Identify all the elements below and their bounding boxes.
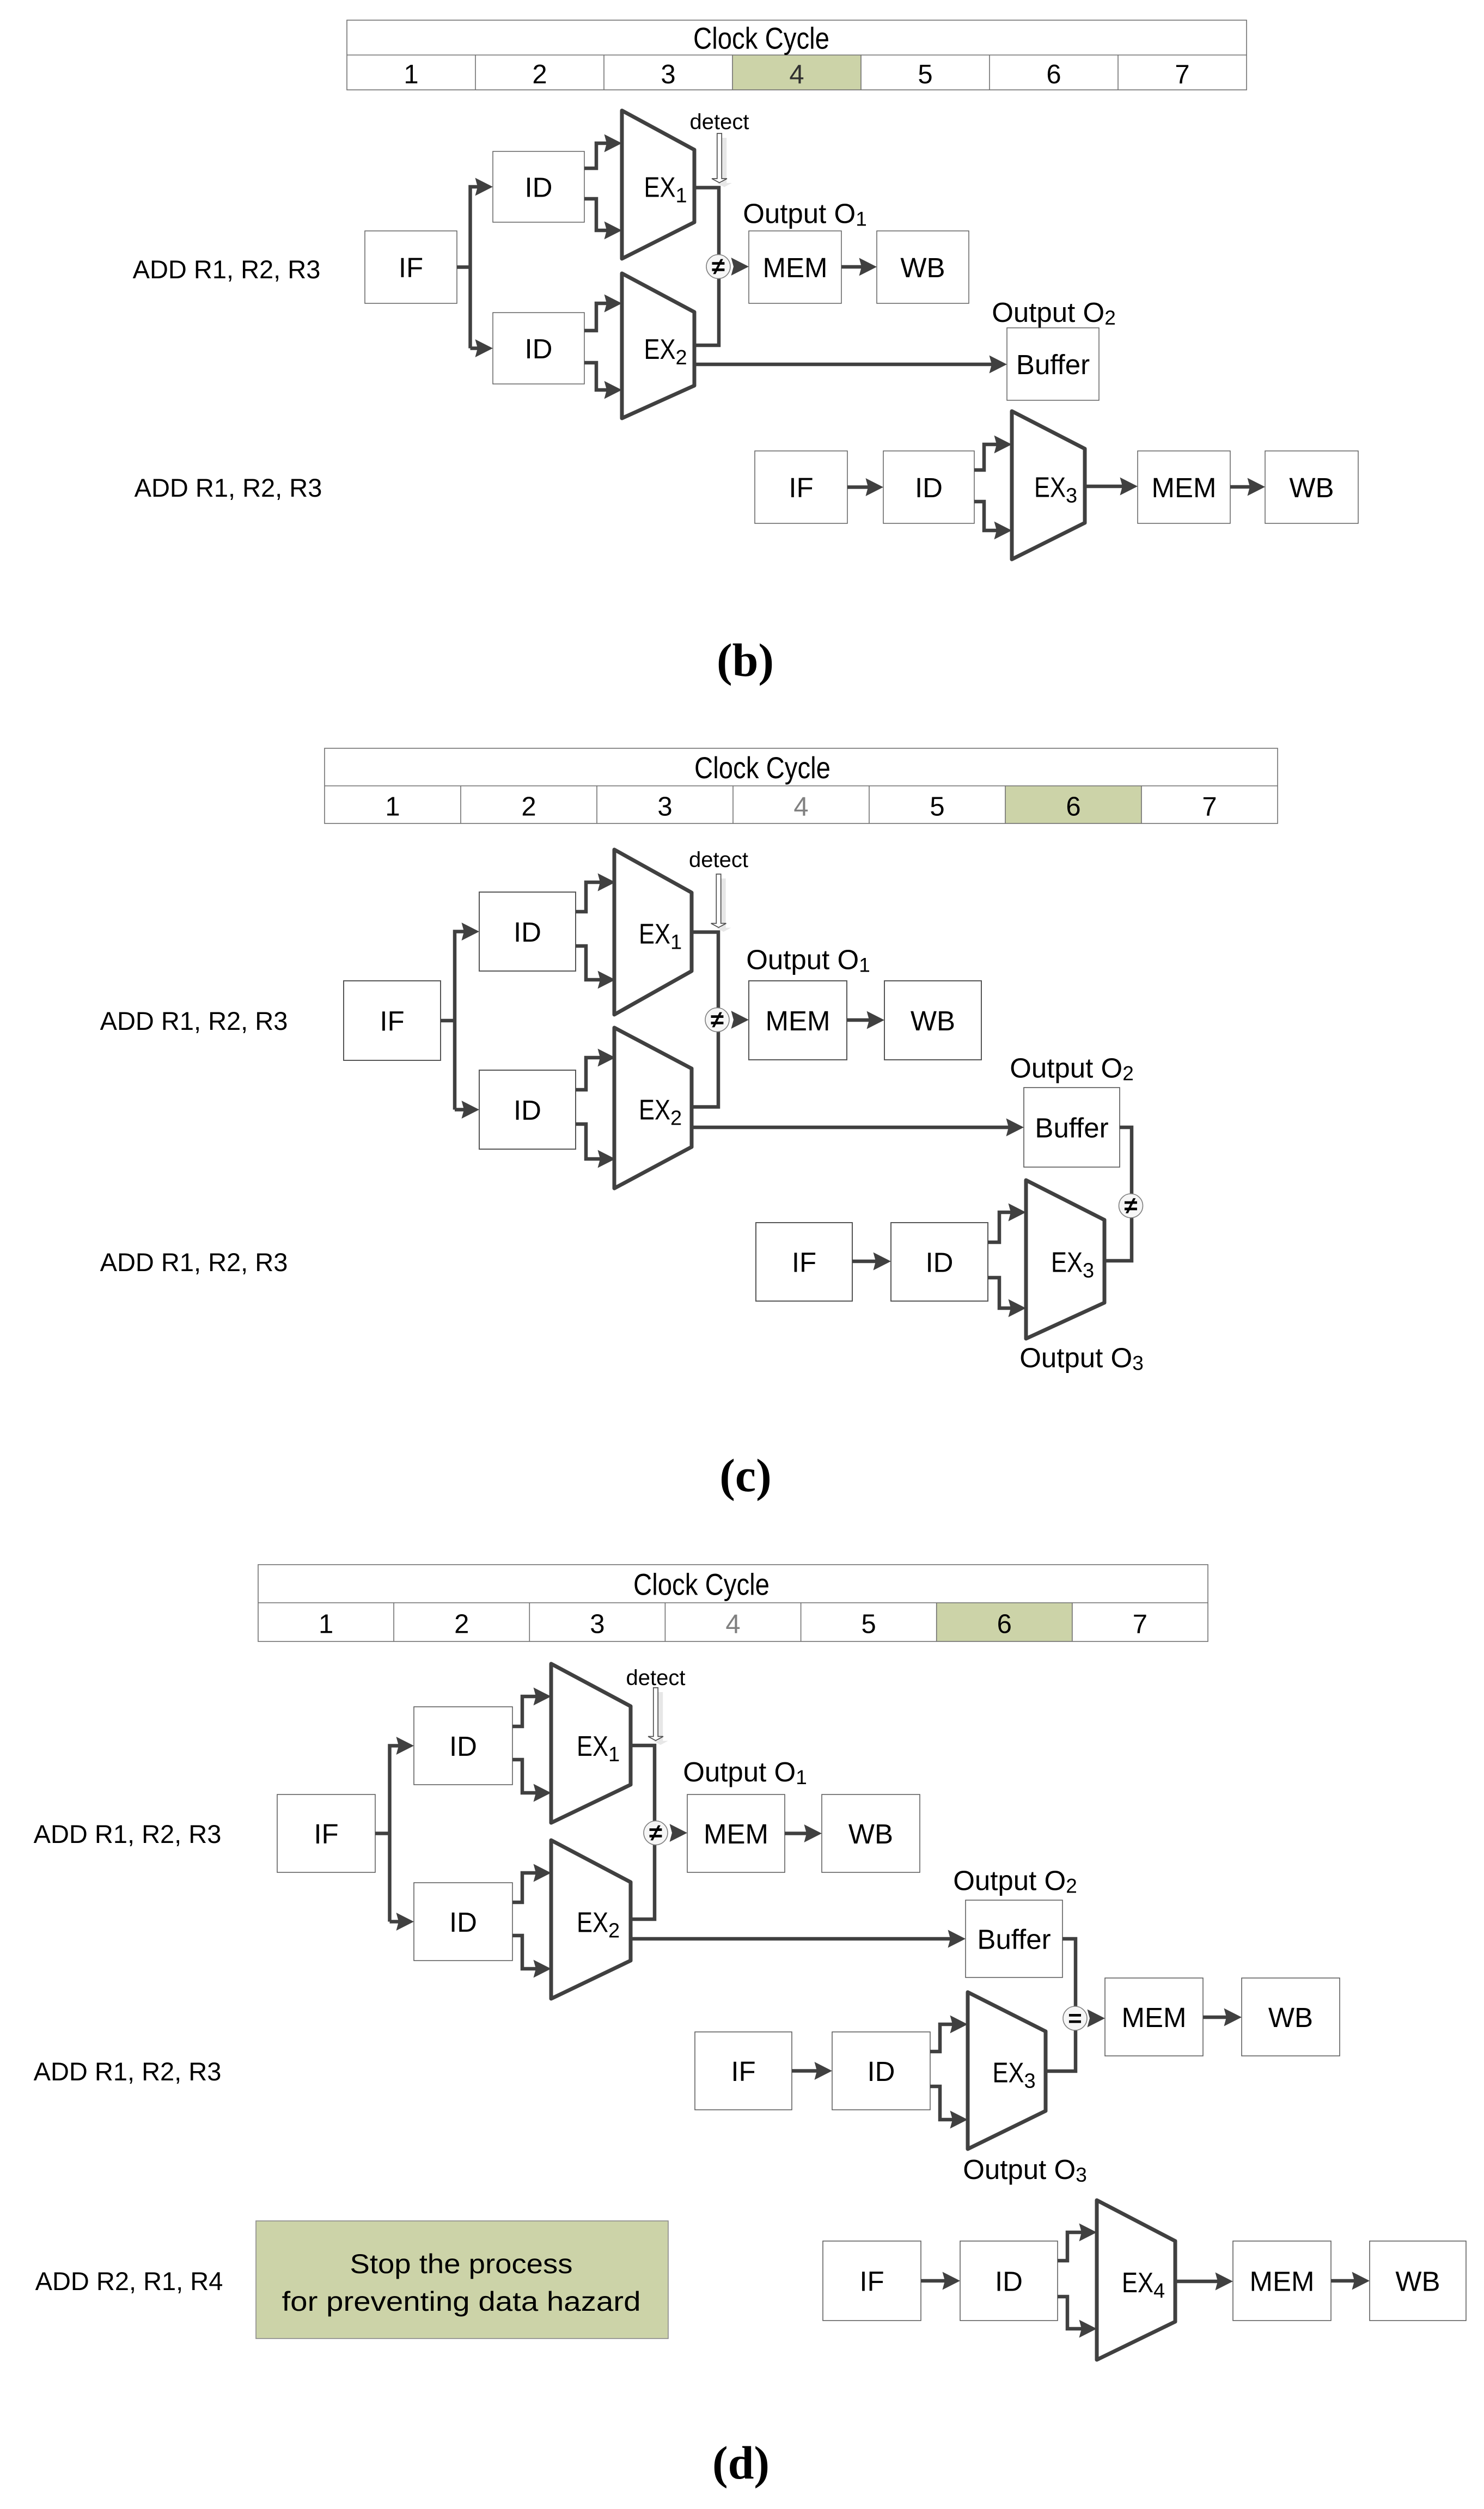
stage box ID upper (d row 1) [414, 1707, 512, 1785]
svg-text:IF: IF [399, 252, 423, 283]
svg-text:Clock Cycle: Clock Cycle [694, 750, 830, 785]
svg-text:Output O3: Output O3 [1019, 1342, 1144, 1375]
svg-text:1: 1 [404, 60, 418, 89]
wire ID-upper to EX1 (d) upper stub [512, 1688, 551, 1727]
wire ID-upper to EX1 (c) upper stub [576, 874, 615, 912]
wire EX2 upper output up to comparator (d) [631, 1833, 655, 1919]
stage box WB (b row 2) [1265, 451, 1358, 523]
wire EX1 output down to comparator (d) [631, 1745, 655, 1833]
svg-text:ADD R1, R2, R3: ADD R1, R2, R3 [34, 1820, 222, 1848]
arrow IF to ID (b row 2) [847, 478, 883, 496]
svg-text:2: 2 [521, 792, 536, 821]
svg-text:ID: ID [514, 917, 541, 948]
wire IF to trunk (d) [375, 1832, 390, 1835]
wire trunk to upper ID (c) [455, 923, 479, 1110]
svg-text:(d): (d) [712, 2437, 770, 2489]
stage box ID (d row 3) [960, 2241, 1058, 2321]
svg-text:ADD R1, R2, R3: ADD R1, R2, R3 [133, 255, 321, 284]
arrow MEM to WB (d row 3) [1331, 2272, 1370, 2290]
stage box ID lower (b row 1) [493, 313, 584, 384]
svg-text:Output O1: Output O1 [743, 198, 867, 230]
svg-text:EX: EX [993, 2058, 1024, 2089]
svg-text:MEM: MEM [1250, 2266, 1315, 2297]
wire ID to EX3 (b) upper stub [974, 436, 1012, 471]
wire ID-lower to EX2 (d) lower stub [512, 1936, 551, 1978]
clock-cycle table (d), cycle 6 highlighted [258, 1565, 1208, 1641]
svg-text:WB: WB [1395, 2266, 1440, 2297]
svg-text:ID: ID [926, 1247, 954, 1278]
stage box ID (b row 2) [883, 451, 974, 523]
svg-text:≠: ≠ [711, 1006, 724, 1033]
svg-text:EX: EX [577, 1731, 608, 1762]
wire ID-upper to EX1 (b) upper stub [584, 135, 622, 169]
stage box WB (b row 1) [877, 231, 969, 303]
svg-text:EX: EX [639, 918, 670, 950]
svg-text:1: 1 [676, 184, 687, 207]
buffer box (b) [1007, 328, 1099, 400]
svg-text:IF: IF [731, 2056, 755, 2087]
detect arrow (c) [711, 874, 731, 932]
wire ID to EX3 (d) lower stub [930, 2086, 968, 2129]
svg-text:4: 4 [725, 1609, 740, 1639]
arrow comparator to MEM (d row 2) [1088, 2010, 1106, 2028]
svg-text:7: 7 [1133, 1609, 1147, 1639]
wire ID-upper to EX1 (b) lower stub [584, 199, 622, 240]
svg-text:6: 6 [1066, 792, 1080, 821]
wire IF to trunk (c) [441, 1019, 455, 1023]
svg-text:(c): (c) [719, 1449, 771, 1501]
svg-text:Output O1: Output O1 [746, 944, 870, 976]
svg-text:≠: ≠ [1124, 1193, 1137, 1219]
detect arrow (b) [712, 133, 732, 187]
svg-text:4: 4 [793, 792, 808, 821]
svg-text:detect: detect [689, 848, 748, 872]
svg-text:4: 4 [1153, 2280, 1165, 2303]
execute unit EX1 (d) [551, 1664, 631, 1823]
stage box MEM (b row 1) [749, 231, 841, 303]
svg-text:1: 1 [319, 1609, 333, 1639]
svg-text:Clock Cycle: Clock Cycle [693, 21, 829, 55]
svg-text:(b): (b) [717, 634, 774, 686]
execute unit EX3 (c) [1026, 1180, 1104, 1339]
wire ID to EX3 (d) upper stub [930, 2016, 968, 2052]
svg-text:EX: EX [577, 1907, 608, 1938]
svg-text:IF: IF [314, 1818, 338, 1849]
stage box IF (d row 2) [695, 2032, 792, 2110]
svg-text:3: 3 [661, 60, 675, 89]
svg-text:Stop the process: Stop the process [350, 2249, 573, 2279]
arrow IF to ID (d row 2) [792, 2062, 832, 2080]
stage box WB (d row 2) [1242, 1978, 1340, 2056]
wire IF to trunk (b) [457, 265, 471, 269]
svg-text:WB: WB [911, 1005, 955, 1036]
arrow comparator to MEM (d) [670, 1824, 688, 1842]
svg-text:7: 7 [1175, 60, 1189, 89]
stop-the-process box (d) [256, 2221, 668, 2339]
wire ID-upper to EX1 (c) lower stub [576, 946, 615, 989]
svg-text:IF: IF [859, 2266, 884, 2297]
svg-text:3: 3 [1024, 2070, 1036, 2093]
svg-text:Buffer: Buffer [1035, 1112, 1108, 1143]
svg-text:ADD R1, R2, R3: ADD R1, R2, R3 [100, 1248, 288, 1277]
arrow comparator to MEM (c) [731, 1011, 749, 1029]
wire ID-lower to EX2 (b) lower stub [584, 363, 622, 399]
svg-text:2: 2 [608, 1919, 620, 1942]
svg-text:ID: ID [525, 172, 553, 203]
svg-text:Output O2: Output O2 [992, 297, 1116, 329]
stage box MEM (b row 2) [1138, 451, 1230, 523]
stage box IF (b row 2) [755, 451, 847, 523]
svg-text:Buffer: Buffer [977, 1924, 1051, 1955]
wire trunk to lower ID (c) [455, 1101, 479, 1119]
svg-text:ID: ID [915, 472, 943, 503]
stage box ID upper (b row 1) [493, 151, 584, 222]
execute unit EX3 (d) [968, 1992, 1046, 2149]
wire Buffer to comparator 3 (d) [1062, 1939, 1076, 2006]
stage box IF (d row 3) [823, 2241, 921, 2321]
svg-text:detect: detect [690, 110, 749, 134]
execute unit EX1 (c) [614, 850, 692, 1015]
arrow MEM to WB (d row 2) [1203, 2009, 1242, 2026]
wire EX3 output up to comparator 2 (c) [1104, 1218, 1132, 1261]
execute unit EX4 (d) [1097, 2200, 1175, 2360]
execute unit EX2 (b) [622, 273, 694, 418]
svg-text:IF: IF [792, 1247, 816, 1278]
wire ID-upper to EX1 (d) lower stub [512, 1760, 551, 1802]
svg-text:EX: EX [644, 172, 676, 203]
svg-text:for preventing data hazard: for preventing data hazard [282, 2286, 641, 2317]
wire trunk to upper ID (d) [390, 1737, 414, 1922]
stage box ID lower (d row 1) [414, 1883, 512, 1961]
svg-text:7: 7 [1202, 792, 1217, 821]
svg-text:EX: EX [1051, 1247, 1083, 1278]
wire trunk to lower ID (d) [390, 1913, 414, 1931]
svg-text:1: 1 [608, 1743, 620, 1766]
arrow EX2 to Buffer (d) [632, 1930, 966, 1948]
stage box WB (d row 3) [1370, 2241, 1466, 2321]
svg-text:2: 2 [676, 346, 687, 369]
svg-text:ADD R1, R2, R3: ADD R1, R2, R3 [34, 2057, 222, 2086]
svg-text:ID: ID [449, 1907, 477, 1938]
svg-text:≠: ≠ [712, 253, 725, 280]
stage box ID (c row 2) [891, 1223, 988, 1301]
svg-text:2: 2 [532, 60, 547, 89]
svg-text:ADD R1, R2, R3: ADD R1, R2, R3 [100, 1006, 288, 1035]
arrow MEM to WB (b row 1) [841, 258, 877, 276]
stage box IF (c row 2) [756, 1223, 852, 1301]
svg-text:5: 5 [918, 60, 932, 89]
stage box ID (d row 2) [832, 2032, 930, 2110]
arrow IF to ID (c row 2) [852, 1253, 891, 1271]
svg-text:ADD R2, R1, R4: ADD R2, R1, R4 [35, 2267, 223, 2296]
execute unit EX2 (d) [551, 1840, 631, 1999]
wire EX2 upper output up to comparator (c) [692, 1020, 718, 1107]
svg-text:MEM: MEM [1122, 2002, 1187, 2033]
svg-text:EX: EX [644, 334, 676, 365]
arrow MEM to WB (b row 2) [1230, 478, 1265, 496]
svg-text:EX: EX [1034, 472, 1066, 504]
wire ID-lower to EX2 (d) upper stub [512, 1864, 551, 1903]
detect arrow (d) [648, 1688, 668, 1745]
stage box IF (d row 1) [277, 1794, 375, 1872]
execute unit EX3 (b) [1012, 411, 1085, 559]
svg-text:WB: WB [900, 252, 945, 283]
svg-text:4: 4 [789, 60, 804, 89]
svg-text:Buffer: Buffer [1016, 349, 1090, 380]
svg-text:6: 6 [1046, 60, 1061, 89]
svg-text:WB: WB [1268, 2002, 1313, 2033]
stage box ID lower (c row 1) [479, 1070, 576, 1149]
svg-text:6: 6 [997, 1609, 1012, 1639]
wire ID to EX4 (d) upper stub [1058, 2224, 1097, 2261]
wire ID-lower to EX2 (c) lower stub [576, 1124, 615, 1168]
arrow MEM to WB (c row 1) [847, 1011, 884, 1029]
svg-text:3: 3 [657, 792, 672, 821]
clock-cycle table (b), cycle 4 highlighted [347, 20, 1247, 90]
svg-text:ID: ID [514, 1095, 541, 1126]
stage box IF (c row 1) [344, 981, 441, 1060]
comparator not-equal (d) [644, 1820, 668, 1846]
arrow EX3 to MEM (b row 2) [1085, 478, 1138, 496]
stage box MEM (d row 1) [687, 1794, 785, 1872]
svg-text:MEM: MEM [763, 252, 828, 283]
wire EX2 upper output up to comparator (b) [694, 266, 719, 345]
wire ID to EX3 (c) lower stub [988, 1278, 1026, 1317]
comparator not-equal (b) [706, 253, 730, 280]
svg-text:3: 3 [1066, 485, 1077, 508]
stage box MEM (d row 3) [1233, 2241, 1331, 2321]
svg-text:5: 5 [861, 1609, 876, 1639]
svg-text:5: 5 [930, 792, 944, 821]
svg-text:=: = [1068, 2005, 1082, 2032]
wire ID-lower to EX2 (c) upper stub [576, 1049, 615, 1090]
wire EX1 output down to comparator (b) [694, 188, 719, 267]
clock-cycle table (c), cycle 6 highlighted [325, 748, 1278, 823]
svg-text:1: 1 [385, 792, 400, 821]
svg-text:Clock Cycle: Clock Cycle [633, 1567, 770, 1601]
wire ID to EX3 (c) upper stub [988, 1204, 1026, 1243]
svg-text:WB: WB [1289, 472, 1334, 503]
svg-text:2: 2 [670, 1107, 682, 1130]
svg-text:Output O1: Output O1 [683, 1756, 807, 1788]
wire ID to EX4 (d) lower stub [1058, 2297, 1097, 2338]
svg-text:1: 1 [670, 931, 682, 954]
svg-text:detect: detect [626, 1666, 686, 1690]
arrow EX2 to Buffer (b) [696, 356, 1007, 374]
execute unit EX1 (b) [622, 111, 694, 259]
buffer box (c) [1024, 1088, 1120, 1167]
svg-text:ADD R1, R2, R3: ADD R1, R2, R3 [135, 473, 322, 502]
svg-text:ID: ID [995, 2266, 1023, 2297]
svg-text:WB: WB [848, 1818, 893, 1849]
svg-text:EX: EX [1122, 2267, 1153, 2299]
buffer box (d) [966, 1900, 1062, 1977]
wire trunk to upper ID (b) [471, 178, 493, 349]
stage box IF (b row 1) [365, 231, 457, 303]
wire trunk to lower ID (b) [471, 339, 493, 357]
stage box WB (d row 1) [822, 1794, 920, 1872]
svg-text:ID: ID [449, 1731, 477, 1762]
arrow EX2 to Buffer (c) [693, 1119, 1024, 1137]
stage box MEM (c row 1) [749, 981, 847, 1060]
svg-text:3: 3 [1083, 1259, 1094, 1282]
arrow IF to ID (d row 3) [921, 2272, 960, 2290]
arrow EX4 to MEM (d row 3) [1175, 2273, 1233, 2291]
stage box WB (c row 1) [884, 981, 981, 1060]
stage box MEM (d row 2) [1105, 1978, 1203, 2056]
svg-text:MEM: MEM [1152, 472, 1217, 503]
svg-text:2: 2 [454, 1609, 469, 1639]
svg-text:MEM: MEM [766, 1005, 830, 1036]
svg-text:Output O3: Output O3 [963, 2154, 1087, 2186]
wire EX1 output down to comparator (c) [692, 932, 718, 1021]
comparator equal (d) [1063, 2005, 1087, 2032]
comparator not-equal (c) [705, 1006, 729, 1033]
svg-text:ID: ID [868, 2056, 895, 2087]
svg-text:≠: ≠ [649, 1820, 662, 1846]
wire EX3 output up to comparator 3 (d) [1046, 2030, 1076, 2071]
svg-text:3: 3 [590, 1609, 604, 1639]
svg-text:EX: EX [639, 1094, 670, 1126]
wire Buffer to comparator 2 (c) [1120, 1127, 1132, 1194]
stage box ID upper (c row 1) [479, 892, 576, 971]
svg-text:Output O2: Output O2 [1010, 1053, 1134, 1085]
svg-text:IF: IF [789, 472, 813, 503]
svg-text:ID: ID [525, 333, 553, 364]
svg-text:IF: IF [380, 1005, 404, 1036]
wire ID-lower to EX2 (b) upper stub [584, 295, 622, 331]
execute unit EX2 (c) [614, 1028, 692, 1188]
svg-text:Output O2: Output O2 [953, 1865, 1077, 1897]
arrow comparator to MEM (b) [731, 258, 749, 276]
svg-text:MEM: MEM [704, 1818, 768, 1849]
wire ID to EX3 (b) lower stub [974, 502, 1012, 540]
comparator not-equal 2 (c) [1119, 1193, 1143, 1219]
arrow MEM to WB (d row 1) [785, 1824, 822, 1842]
